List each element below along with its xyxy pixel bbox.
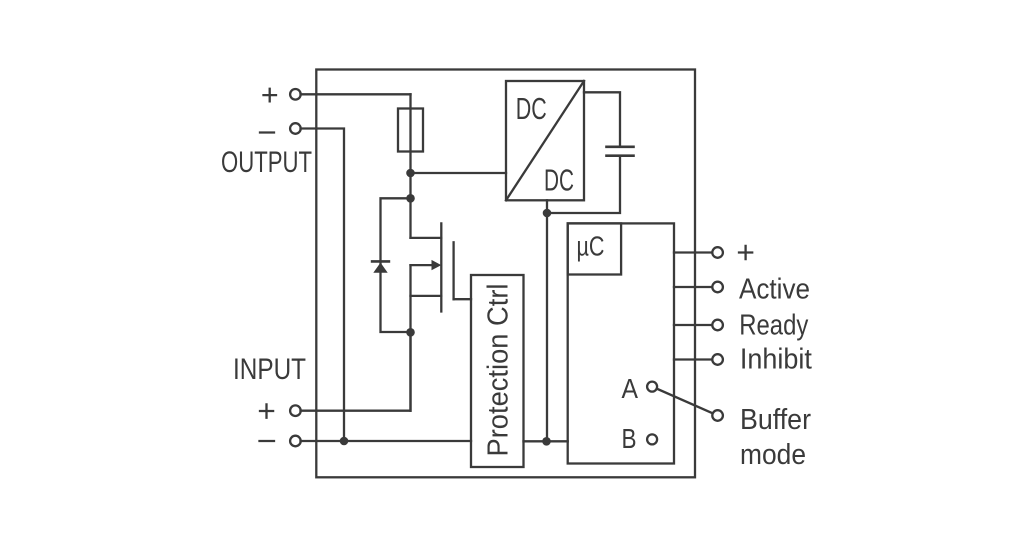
label Inhibit — [740, 343, 812, 375]
terminal Buffer mode — [712, 410, 723, 421]
input minus sign — [260, 440, 275, 442]
wire fuse vertical — [409, 94, 411, 238]
svg-text:Ready: Ready — [739, 309, 808, 341]
capacitor C1 — [607, 147, 634, 156]
wire output- down to bottom rail — [301, 129, 345, 442]
node junction diode branch top — [406, 194, 415, 203]
label A — [622, 373, 639, 404]
svg-text:INPUT: INPUT — [233, 353, 306, 386]
diode D1 body diode — [372, 261, 389, 272]
output minus sign — [260, 131, 274, 133]
svg-text:Active: Active — [739, 273, 810, 305]
wire pin Active — [674, 286, 713, 288]
label OUTPUT — [221, 146, 312, 179]
svg-text:A: A — [622, 373, 639, 404]
label Ready — [739, 309, 808, 341]
transistor Q1 MOSFET channel — [440, 223, 442, 311]
terminal Active — [712, 282, 723, 293]
wire source tap — [411, 295, 442, 297]
wire DC/DC bottom to rail — [546, 200, 548, 441]
svg-text:Inhibit: Inhibit — [740, 343, 812, 375]
svg-text:DC: DC — [544, 163, 574, 198]
wire input- rail right of protection — [524, 440, 568, 442]
terminal input - — [290, 436, 301, 447]
block DC/DC converter U1 — [506, 81, 584, 200]
terminal plus right — [712, 247, 723, 258]
block uC label box — [568, 223, 621, 274]
node junction output- on rail — [340, 437, 349, 446]
label B — [622, 423, 637, 454]
terminal Ready — [712, 320, 723, 331]
wire output+ to fuse — [301, 93, 411, 95]
svg-text:µC: µC — [577, 231, 605, 262]
wire diode branch — [381, 198, 411, 332]
block microcontroller uC — [568, 223, 674, 463]
label mode — [740, 439, 806, 471]
switch contact B — [647, 434, 657, 444]
wire body tap with arrow — [411, 260, 442, 270]
outer enclosure box — [316, 70, 695, 478]
output plus sign — [264, 89, 277, 102]
wire input+ to mosfet source — [301, 332, 411, 410]
wire gate to protection ctrl — [454, 298, 471, 300]
wire pin Inhibit — [674, 358, 713, 360]
svg-text:B: B — [622, 423, 637, 454]
fuse F1 — [398, 109, 423, 152]
terminal Inhibit — [712, 354, 723, 365]
input plus sign — [260, 404, 273, 417]
wire source-body vertical — [409, 265, 411, 411]
switch lever A to Buffer — [652, 387, 718, 416]
transistor Q1 gate electrode — [452, 242, 454, 299]
label Active — [739, 273, 810, 305]
label INPUT — [233, 353, 306, 386]
terminal output + — [290, 89, 301, 100]
svg-text:OUTPUT: OUTPUT — [221, 146, 312, 179]
node junction capacitor return — [543, 209, 552, 218]
wire node fuse to DC/DC input — [411, 172, 507, 174]
wire input- rail left — [301, 440, 472, 442]
wire pin Ready — [674, 324, 713, 326]
svg-text:Protection Ctrl: Protection Ctrl — [483, 284, 515, 457]
right plus sign — [739, 246, 752, 259]
wire pin + — [674, 251, 713, 253]
label Buffer — [740, 404, 811, 436]
terminal output - — [290, 123, 301, 134]
wire DC/DC output top to capacitor — [584, 92, 620, 147]
block Protection Ctrl — [471, 275, 524, 467]
switch contact A — [647, 382, 657, 392]
wire capacitor return — [547, 156, 620, 213]
svg-text:mode: mode — [740, 439, 806, 471]
svg-text:DC: DC — [516, 91, 547, 126]
node junction mosfet source / input+ — [406, 328, 415, 337]
node junction dc bottom on rail — [542, 437, 551, 446]
svg-text:Buffer: Buffer — [740, 404, 811, 436]
node junction fuse/DCDC — [406, 169, 415, 178]
terminal input + — [290, 405, 301, 416]
wire drain tap — [411, 237, 442, 239]
